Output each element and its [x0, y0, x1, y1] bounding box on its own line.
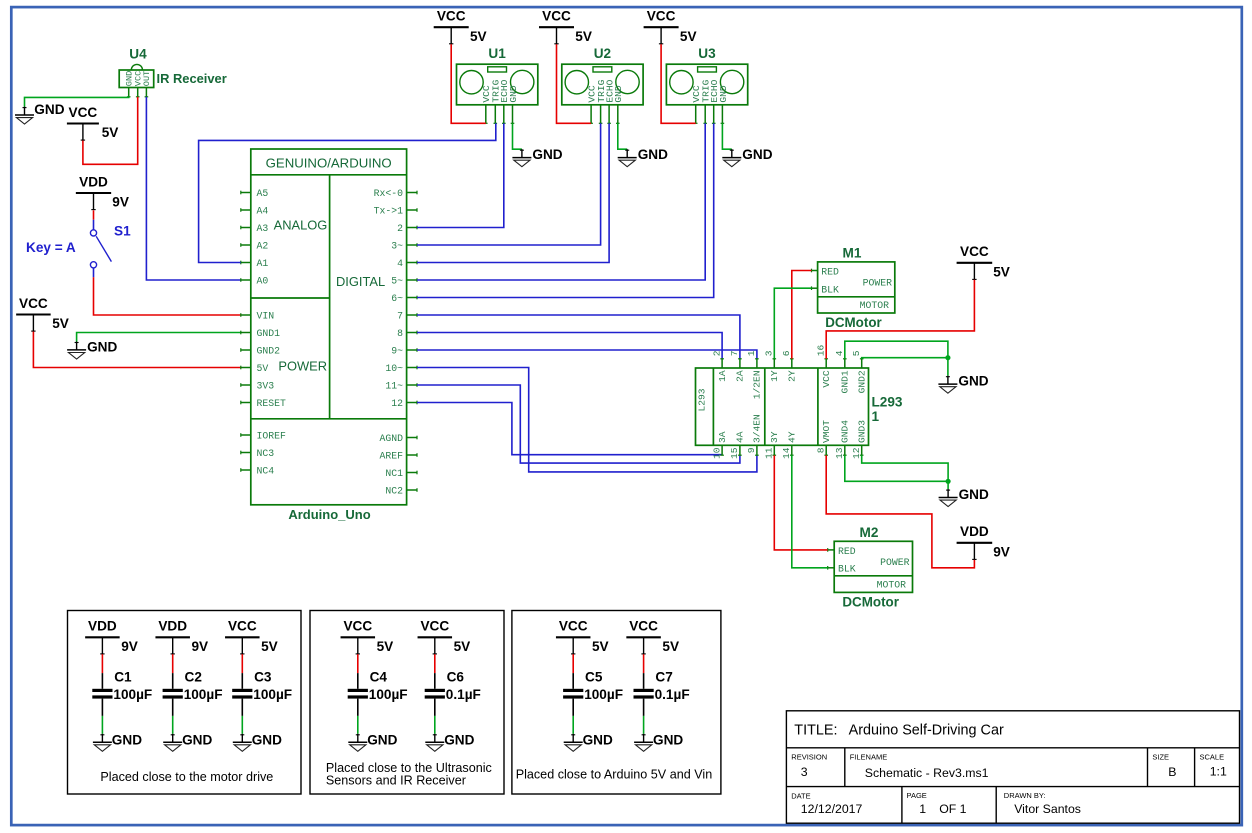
svg-text:4: 4	[834, 350, 845, 356]
svg-text:2A: 2A	[735, 370, 746, 382]
DC motor M2	[828, 525, 913, 593]
svg-text:5V: 5V	[52, 316, 69, 331]
svg-text:1/2EN: 1/2EN	[752, 370, 763, 399]
svg-text:0.1µF: 0.1µF	[446, 687, 481, 702]
svg-text:Sensors and IR Receiver: Sensors and IR Receiver	[326, 774, 466, 788]
svg-text:A0: A0	[257, 275, 269, 286]
svg-text:VCC: VCC	[559, 619, 588, 634]
svg-text:11: 11	[764, 447, 775, 459]
svg-text:C6: C6	[447, 670, 465, 685]
svg-text:3/4EN: 3/4EN	[752, 414, 763, 443]
svg-text:SCALE: SCALE	[1200, 752, 1225, 761]
svg-text:IR Receiver: IR Receiver	[157, 71, 227, 86]
svg-text:RESET: RESET	[257, 398, 287, 409]
svg-text:M1: M1	[843, 246, 862, 261]
capacitor C6	[418, 619, 481, 752]
svg-text:5V: 5V	[454, 639, 471, 654]
decoupling box 1 (motor drive)	[68, 611, 302, 795]
svg-text:VDD: VDD	[960, 524, 989, 539]
svg-text:8: 8	[815, 447, 826, 453]
svg-text:VCC: VCC	[542, 9, 571, 24]
svg-text:ANALOG: ANALOG	[274, 217, 328, 232]
svg-text:5V: 5V	[662, 639, 679, 654]
svg-text:GND: GND	[638, 147, 668, 162]
label Arduino_Uno	[288, 507, 370, 522]
svg-text:12: 12	[391, 398, 403, 409]
svg-text:L293: L293	[872, 395, 903, 410]
ground right of L293 upper	[938, 374, 988, 394]
wire VCC to L293 VCC pin 16	[826, 280, 974, 359]
svg-text:4: 4	[397, 258, 403, 269]
svg-text:7: 7	[397, 310, 403, 321]
svg-text:3: 3	[764, 350, 775, 356]
svg-text:100µF: 100µF	[253, 687, 292, 702]
title block	[786, 711, 1239, 823]
svg-text:DIGITAL: DIGITAL	[336, 274, 385, 289]
svg-text:2Y: 2Y	[787, 370, 798, 382]
svg-text:4A: 4A	[735, 431, 746, 443]
note box 1 text	[100, 770, 273, 784]
svg-text:GND: GND	[613, 85, 624, 103]
power VDD 9V right of M2	[957, 524, 1010, 560]
svg-text:12: 12	[851, 447, 862, 459]
ground near Arduino GND1	[67, 339, 117, 359]
wire VCC to U3 VCC pin	[661, 44, 696, 123]
svg-text:C4: C4	[370, 670, 388, 685]
wire L293 GND4 to ground	[845, 455, 948, 481]
svg-text:9V: 9V	[192, 639, 209, 654]
svg-text:100µF: 100µF	[184, 687, 223, 702]
svg-text:Arduino Self-Driving Car: Arduino Self-Driving Car	[849, 723, 1004, 739]
svg-text:GND2: GND2	[257, 345, 281, 356]
ground below U3	[722, 147, 772, 167]
svg-text:4Y: 4Y	[787, 431, 798, 443]
svg-text:A4: A4	[257, 205, 269, 216]
decoupling box 2 (ultrasonic sensors)	[310, 611, 504, 795]
wire U1 TRIG to Arduino A1	[199, 123, 496, 262]
svg-text:GND: GND	[34, 102, 64, 117]
svg-text:GND: GND	[959, 487, 989, 502]
svg-text:L293: L293	[697, 388, 708, 411]
wire VCC to U1 VCC pin	[451, 44, 486, 123]
svg-text:GND1: GND1	[840, 370, 851, 393]
power VCC 5V above U2	[539, 9, 592, 45]
svg-text:1: 1	[872, 409, 880, 424]
svg-text:9V: 9V	[112, 195, 129, 210]
note box 3 text	[516, 768, 713, 782]
svg-text:GND: GND	[718, 85, 729, 103]
svg-text:Rx<-0: Rx<-0	[374, 188, 404, 199]
svg-text:VCC: VCC	[69, 105, 98, 120]
wire switch to Arduino VIN	[94, 277, 241, 315]
svg-text:0.1µF: 0.1µF	[655, 687, 690, 702]
svg-text:9~: 9~	[391, 345, 403, 356]
capacitor C3	[225, 619, 292, 752]
wire VCC to U2 VCC pin	[557, 44, 592, 123]
svg-text:100µF: 100µF	[584, 687, 623, 702]
power VCC 5V above U1	[434, 9, 487, 45]
svg-text:C1: C1	[114, 670, 132, 685]
svg-text:U4: U4	[129, 47, 147, 62]
capacitor C5	[556, 619, 623, 752]
svg-text:6~: 6~	[391, 293, 403, 304]
svg-text:POWER: POWER	[880, 557, 910, 568]
svg-text:POWER: POWER	[863, 278, 893, 289]
power VDD 9V above switch	[76, 174, 129, 210]
svg-text:Key = A: Key = A	[26, 240, 76, 255]
svg-text:1: 1	[919, 802, 926, 816]
svg-text:9V: 9V	[121, 639, 138, 654]
svg-text:GND: GND	[87, 339, 117, 354]
svg-text:3V3: 3V3	[257, 380, 275, 391]
ultrasonic sensor U2	[562, 46, 643, 123]
wire U4 OUT to Arduino A0	[146, 97, 240, 280]
svg-text:B: B	[1168, 765, 1176, 779]
svg-text:VCC: VCC	[343, 619, 372, 634]
svg-text:3Y: 3Y	[769, 431, 780, 443]
label DCMotor M2	[842, 595, 899, 610]
wire Arduino GND1 to ground	[77, 333, 241, 342]
svg-text:GND2: GND2	[857, 370, 868, 393]
wire U4 GND pin to ground	[25, 97, 129, 107]
svg-text:BLK: BLK	[838, 564, 856, 575]
svg-text:5V: 5V	[257, 363, 269, 374]
svg-text:A3: A3	[257, 223, 269, 234]
svg-text:1: 1	[746, 350, 757, 356]
svg-text:1Y: 1Y	[769, 370, 780, 382]
svg-text:TITLE:: TITLE:	[794, 723, 837, 739]
svg-text:6: 6	[781, 350, 792, 356]
svg-text:VDD: VDD	[79, 174, 108, 189]
svg-text:GND: GND	[508, 85, 519, 103]
wire M2 BLK to L293 4Y	[792, 455, 828, 568]
switch S1 (Key = A)	[26, 210, 131, 277]
svg-text:C3: C3	[254, 670, 272, 685]
wire U1 ECHO to Arduino pin 2	[417, 123, 504, 227]
svg-text:9V: 9V	[993, 544, 1010, 559]
svg-text:8: 8	[397, 328, 403, 339]
wire Arduino pin 7 to L293 2A	[417, 315, 740, 359]
svg-text:5V: 5V	[377, 639, 394, 654]
junction node GND3/GND4	[946, 479, 951, 489]
svg-text:GND: GND	[742, 147, 772, 162]
svg-text:VCC: VCC	[821, 370, 832, 388]
svg-text:SIZE: SIZE	[1152, 752, 1169, 761]
svg-text:AGND: AGND	[379, 433, 403, 444]
svg-text:GND: GND	[367, 733, 397, 748]
svg-text:POWER: POWER	[278, 359, 327, 374]
label IR Receiver	[157, 71, 227, 86]
svg-text:5V: 5V	[102, 125, 119, 140]
wire U3 ECHO to Arduino pin 6	[417, 123, 714, 297]
ground near U4	[15, 102, 65, 124]
decoupling box 3 (arduino 5V)	[512, 611, 721, 795]
wire VCC to U4 VCC pin	[83, 97, 138, 165]
capacitor C4	[341, 619, 408, 752]
label L293 1	[872, 395, 903, 424]
svg-text:DRAWN BY:: DRAWN BY:	[1004, 791, 1046, 800]
svg-text:U1: U1	[488, 46, 506, 61]
svg-text:AREF: AREF	[379, 450, 403, 461]
svg-text:GND: GND	[653, 733, 683, 748]
wire U3 TRIG to Arduino pin 5	[417, 123, 705, 280]
svg-text:DCMotor: DCMotor	[825, 315, 882, 330]
ground below U1	[512, 147, 562, 167]
svg-text:GND: GND	[182, 733, 212, 748]
capacitor C2	[155, 619, 222, 752]
svg-text:VCC: VCC	[228, 619, 257, 634]
capacitor C1	[85, 619, 152, 752]
svg-text:VDD: VDD	[158, 619, 187, 634]
Arduino Uno U? (GENUINO/ARDUINO)	[241, 149, 417, 505]
power VCC 5V right of M1	[957, 244, 1010, 280]
svg-text:OF 1: OF 1	[939, 802, 966, 816]
svg-text:13: 13	[834, 447, 845, 459]
svg-text:VCC: VCC	[437, 9, 466, 24]
svg-text:MOTOR: MOTOR	[860, 300, 890, 311]
svg-text:BLK: BLK	[821, 284, 839, 295]
svg-text:5V: 5V	[470, 29, 487, 44]
ultrasonic sensor U3	[666, 46, 747, 123]
svg-text:11~: 11~	[385, 380, 403, 391]
svg-text:3: 3	[801, 765, 808, 779]
wire Arduino pin 8 to L293 1A	[417, 333, 722, 359]
ground below U2	[618, 147, 668, 167]
svg-text:16: 16	[815, 344, 826, 356]
svg-text:C5: C5	[585, 670, 603, 685]
motor driver L293	[696, 344, 869, 459]
label DCMotor M1	[825, 315, 882, 330]
svg-text:REVISION: REVISION	[791, 752, 827, 761]
svg-text:GND3: GND3	[857, 420, 868, 443]
wire M2 RED to L293 3Y	[774, 455, 827, 550]
svg-text:A2: A2	[257, 240, 269, 251]
svg-text:M2: M2	[860, 525, 879, 540]
svg-text:FILENAME: FILENAME	[850, 752, 888, 761]
svg-text:IOREF: IOREF	[257, 430, 287, 441]
svg-text:GND: GND	[583, 733, 613, 748]
note box 2 text	[326, 761, 492, 788]
svg-text:1A: 1A	[717, 370, 728, 382]
svg-text:NC1: NC1	[385, 468, 403, 479]
svg-text:GND4: GND4	[840, 420, 851, 443]
svg-text:C2: C2	[185, 670, 203, 685]
svg-text:5V: 5V	[993, 264, 1010, 279]
wire L293 GND1 to ground	[845, 341, 948, 359]
wire U3 GND pin to ground	[722, 123, 731, 149]
ground right of L293 lower	[939, 487, 989, 507]
svg-text:12/12/2017: 12/12/2017	[801, 802, 863, 816]
svg-text:Schematic - Rev3.ms1: Schematic - Rev3.ms1	[865, 766, 989, 780]
junction node GND1/GND2	[945, 355, 950, 376]
power VCC 5V left	[16, 296, 69, 332]
svg-text:10: 10	[711, 447, 722, 459]
svg-text:GND: GND	[112, 733, 142, 748]
svg-text:VMOT: VMOT	[821, 420, 832, 443]
ultrasonic sensor U1	[457, 46, 538, 123]
DC motor M1	[812, 246, 895, 314]
svg-text:GND: GND	[444, 733, 474, 748]
wire Arduino pin 9 to L293 1/2EN	[417, 350, 757, 359]
svg-text:U3: U3	[698, 46, 716, 61]
wire U1 GND pin to ground	[513, 123, 522, 149]
svg-text:5V: 5V	[680, 29, 697, 44]
svg-text:7: 7	[729, 350, 740, 356]
svg-text:S1: S1	[114, 223, 131, 238]
wire Arduino pin 10 to L293 3/4EN	[417, 368, 757, 472]
svg-text:DCMotor: DCMotor	[842, 595, 899, 610]
svg-text:MOTOR: MOTOR	[877, 579, 907, 590]
svg-text:5~: 5~	[391, 275, 403, 286]
wire U2 ECHO to Arduino pin 4	[417, 123, 609, 262]
svg-text:9: 9	[746, 447, 757, 453]
svg-text:100µF: 100µF	[369, 687, 408, 702]
svg-text:10~: 10~	[385, 363, 403, 374]
svg-text:2: 2	[711, 350, 722, 356]
svg-text:Vitor Santos: Vitor Santos	[1014, 802, 1081, 816]
wire U2 TRIG to Arduino pin 3	[417, 123, 601, 245]
wire M1 RED to L293 2Y	[792, 271, 812, 359]
svg-text:VCC: VCC	[420, 619, 449, 634]
svg-text:5V: 5V	[575, 29, 592, 44]
svg-text:GND1: GND1	[257, 328, 281, 339]
wire L293 GND3 to ground	[862, 455, 948, 481]
svg-text:100µF: 100µF	[113, 687, 152, 702]
svg-text:Tx->1: Tx->1	[374, 205, 404, 216]
svg-text:GENUINO/ARDUINO: GENUINO/ARDUINO	[266, 155, 392, 170]
svg-text:RED: RED	[821, 267, 839, 278]
svg-text:VCC: VCC	[960, 244, 989, 259]
wire Arduino pin 11 to L293 4A	[417, 385, 740, 463]
svg-text:5: 5	[851, 350, 862, 356]
svg-text:A5: A5	[257, 188, 269, 199]
svg-text:C7: C7	[655, 670, 672, 685]
svg-text:GND: GND	[252, 733, 282, 748]
svg-text:5V: 5V	[261, 639, 278, 654]
svg-text:A1: A1	[257, 258, 269, 269]
svg-text:VIN: VIN	[257, 310, 275, 321]
wire VCC to Arduino 5V pin	[33, 332, 240, 368]
svg-text:1:1: 1:1	[1210, 764, 1227, 778]
wire U2 GND pin to ground	[618, 123, 627, 149]
svg-text:PAGE: PAGE	[907, 791, 927, 800]
IR receiver U4	[119, 47, 154, 97]
svg-text:Arduino_Uno: Arduino_Uno	[288, 507, 370, 522]
capacitor C7	[626, 619, 689, 752]
svg-text:2: 2	[397, 223, 403, 234]
svg-text:15: 15	[729, 447, 740, 459]
wire L293 VMOT to VDD	[826, 455, 974, 568]
svg-text:3~: 3~	[391, 240, 403, 251]
power VCC 5V near U4	[67, 105, 118, 141]
svg-text:OUT: OUT	[142, 71, 152, 86]
wire Arduino pin 12 to L293 3A	[417, 403, 722, 455]
svg-text:NC2: NC2	[385, 485, 403, 496]
svg-text:VCC: VCC	[629, 619, 658, 634]
svg-text:RED: RED	[838, 546, 856, 557]
wire M1 BLK to L293 1Y	[774, 288, 811, 359]
svg-text:DATE: DATE	[791, 792, 810, 801]
svg-text:VCC: VCC	[19, 296, 48, 311]
svg-text:NC3: NC3	[257, 448, 275, 459]
svg-text:14: 14	[781, 447, 792, 459]
svg-text:VCC: VCC	[647, 9, 676, 24]
svg-text:VDD: VDD	[88, 619, 117, 634]
svg-text:5V: 5V	[592, 639, 609, 654]
svg-text:Placed close to the motor driv: Placed close to the motor drive	[100, 770, 273, 784]
svg-text:3A: 3A	[717, 431, 728, 443]
svg-text:U2: U2	[594, 46, 612, 61]
svg-text:Placed close to Arduino 5V and: Placed close to Arduino 5V and Vin	[516, 768, 713, 782]
svg-text:GND: GND	[958, 374, 988, 389]
power VCC 5V above U3	[644, 9, 697, 45]
svg-text:GND: GND	[532, 147, 562, 162]
svg-text:NC4: NC4	[257, 465, 275, 476]
wire L293 GND2 to ground	[862, 358, 948, 359]
